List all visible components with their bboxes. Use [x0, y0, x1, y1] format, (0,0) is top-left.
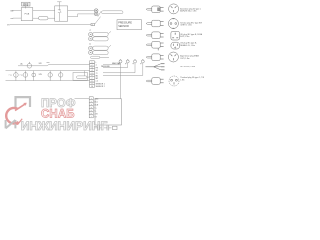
- connector CN2 pins: [94, 9, 98, 16]
- cord option 7 text: [180, 76, 205, 82]
- wire strip row6 to P4: [103, 66, 143, 76]
- watermark red tick: [15, 119, 22, 125]
- svg-text:NO PLUG, 1.8m: NO PLUG, 1.8m: [180, 66, 195, 68]
- wire left from X2: [75, 98, 90, 100]
- pin symbol P3: [133, 59, 137, 66]
- label box above main module: [22, 2, 31, 7]
- watermark text SNAB: [41, 106, 75, 120]
- label aux 24V: [39, 63, 43, 65]
- pin symbol P4: [141, 59, 145, 66]
- label YV1: [8, 75, 11, 77]
- svg-text:SENSOR: SENSOR: [118, 25, 129, 28]
- main module box U1: [21, 8, 33, 21]
- arrow tick at earth terminal: [95, 17, 101, 25]
- cable pill to sensor: [102, 11, 124, 14]
- cable group CB2: [89, 45, 111, 54]
- cord option 4 socket face: [171, 42, 180, 49]
- svg-text:CEE7/7, 1.8m: CEE7/7, 1.8m: [180, 25, 192, 27]
- svg-text:10: 10: [91, 86, 93, 88]
- small cable pill CB3: [91, 56, 109, 58]
- svg-text:S1: S1: [96, 70, 98, 72]
- wire L into module: [13, 10, 21, 12]
- label YV2: [19, 75, 22, 77]
- cord option 2 plug icon: [146, 20, 164, 27]
- label above cable group CB1: [89, 30, 91, 32]
- wire strip row5 to P3: [103, 66, 135, 73]
- svg-text:S2: S2: [96, 73, 98, 75]
- aux wire left: [18, 65, 47, 67]
- wire label-box to module: [25, 6, 27, 8]
- cord option 5 plug icon: [146, 54, 164, 61]
- label pressure wire: [101, 66, 110, 68]
- svg-text:YV2: YV2: [19, 75, 22, 77]
- cord option 3 plug icon: [146, 32, 164, 39]
- svg-text:SENSOR 1: SENSOR 1: [96, 83, 105, 85]
- actuator T symbol: [57, 2, 61, 6]
- cord option 1 text: [180, 8, 201, 13]
- terminal box at earth wire end: [91, 23, 95, 26]
- pin symbol P1: [118, 59, 122, 66]
- label above cable group CB2: [89, 44, 91, 46]
- junction box J1: [73, 73, 88, 81]
- svg-text:S+: S+: [94, 107, 96, 109]
- wire switch to connector top: [68, 10, 95, 12]
- aux diode tick: [47, 61, 50, 63]
- svg-text:1.8m: 1.8m: [180, 79, 185, 81]
- pressure sensor box: [117, 20, 142, 30]
- svg-text:1: 1: [92, 24, 93, 26]
- svg-text:2x: 2x: [89, 30, 91, 32]
- cord option 6 text: [180, 66, 195, 68]
- label L: [11, 11, 14, 13]
- watermark text ENGINEERING: [21, 119, 108, 133]
- valve YV1: [14, 71, 19, 81]
- svg-text:PRESSURE: PRESSURE: [118, 21, 132, 24]
- cord option 7 socket face: [169, 76, 179, 86]
- pressure switch box S1: [55, 6, 68, 21]
- watermark logo P: [16, 97, 31, 107]
- svg-text:M1: M1: [96, 75, 99, 77]
- cord option 7 plug icon: [146, 78, 164, 85]
- wire strip row3 to P2: [103, 66, 128, 68]
- watermark logo red arrow: [15, 103, 27, 111]
- top rail: [6, 70, 90, 72]
- wire module to fuse: [33, 17, 39, 19]
- svg-text:CN 01: CN 01: [23, 3, 30, 5]
- svg-text:PCB: PCB: [25, 13, 30, 15]
- filter bottom terminal: [113, 126, 118, 129]
- svg-text:2073, 1.8m: 2073, 1.8m: [180, 58, 190, 60]
- lamp HL2: [59, 71, 63, 81]
- wire fuse to switch: [48, 17, 55, 19]
- label N: [11, 18, 14, 20]
- cord option 3 socket face: [171, 31, 180, 40]
- svg-text:M2: M2: [96, 78, 99, 80]
- switch internal contact: [58, 6, 61, 21]
- filter bottom capacitor 1: [95, 125, 103, 130]
- long earth wire: [10, 24, 91, 26]
- svg-text:B-5P, 1.8m: B-5P, 1.8m: [180, 36, 189, 38]
- svg-text:Schuko plug IEC Type E/F,: Schuko plug IEC Type E/F,: [180, 22, 202, 24]
- watermark logo red C: [6, 108, 18, 124]
- fuse F1: [39, 16, 49, 20]
- filter bottom capacitor 2: [104, 125, 112, 130]
- cord option 3 text: [180, 33, 202, 38]
- cord option 1 socket face: [169, 4, 179, 14]
- wire J1 pill to strip: [87, 76, 90, 78]
- wire strip row2 to P1: [103, 64, 121, 66]
- cord option 2 text: [180, 22, 202, 26]
- pump M1: [32, 71, 36, 81]
- cord option 6 bare wires: [146, 64, 165, 70]
- label earth wire: [7, 25, 10, 27]
- label aux left: [21, 63, 24, 66]
- watermark text PROF: [41, 95, 76, 110]
- pin symbol P2: [125, 59, 129, 66]
- filter box: [95, 99, 122, 125]
- cord option 1 plug icon: [146, 6, 164, 13]
- cord option 2 socket face: [168, 19, 178, 29]
- wire N into module: [13, 17, 21, 19]
- connector slash: [98, 11, 101, 16]
- svg-text:2x: 2x: [89, 44, 91, 46]
- svg-text:ИНЖИНИРИНГ: ИНЖИНИРИНГ: [21, 119, 108, 133]
- bottom connector X2: [89, 97, 99, 119]
- wire module to switch top: [33, 10, 55, 12]
- aux motor M2: [27, 62, 32, 68]
- label 24V: [39, 74, 43, 76]
- terminal strip X1: [90, 61, 105, 88]
- riser P1 to filter box: [120, 66, 122, 99]
- cord option 5 text: [180, 54, 199, 60]
- label main pwr: [112, 62, 121, 65]
- svg-text:SENSOR 2: SENSOR 2: [96, 86, 105, 88]
- aux wire right: [47, 64, 90, 66]
- heater pill in J1: [77, 76, 88, 79]
- valve YV2: [23, 71, 28, 81]
- watermark logo I: [6, 120, 16, 128]
- svg-text:YV1: YV1: [8, 75, 11, 77]
- svg-text:L: L: [96, 62, 97, 64]
- lamp HL1: [48, 71, 52, 81]
- cord option 4 plug icon: [146, 42, 164, 51]
- wire J1 internal drop: [84, 71, 86, 76]
- wire switch lower step: [68, 14, 95, 17]
- bottom rail: [6, 80, 90, 82]
- cord option 4 text: [180, 42, 197, 47]
- cord option 5 socket face: [168, 52, 178, 62]
- cable group CB1: [89, 31, 111, 40]
